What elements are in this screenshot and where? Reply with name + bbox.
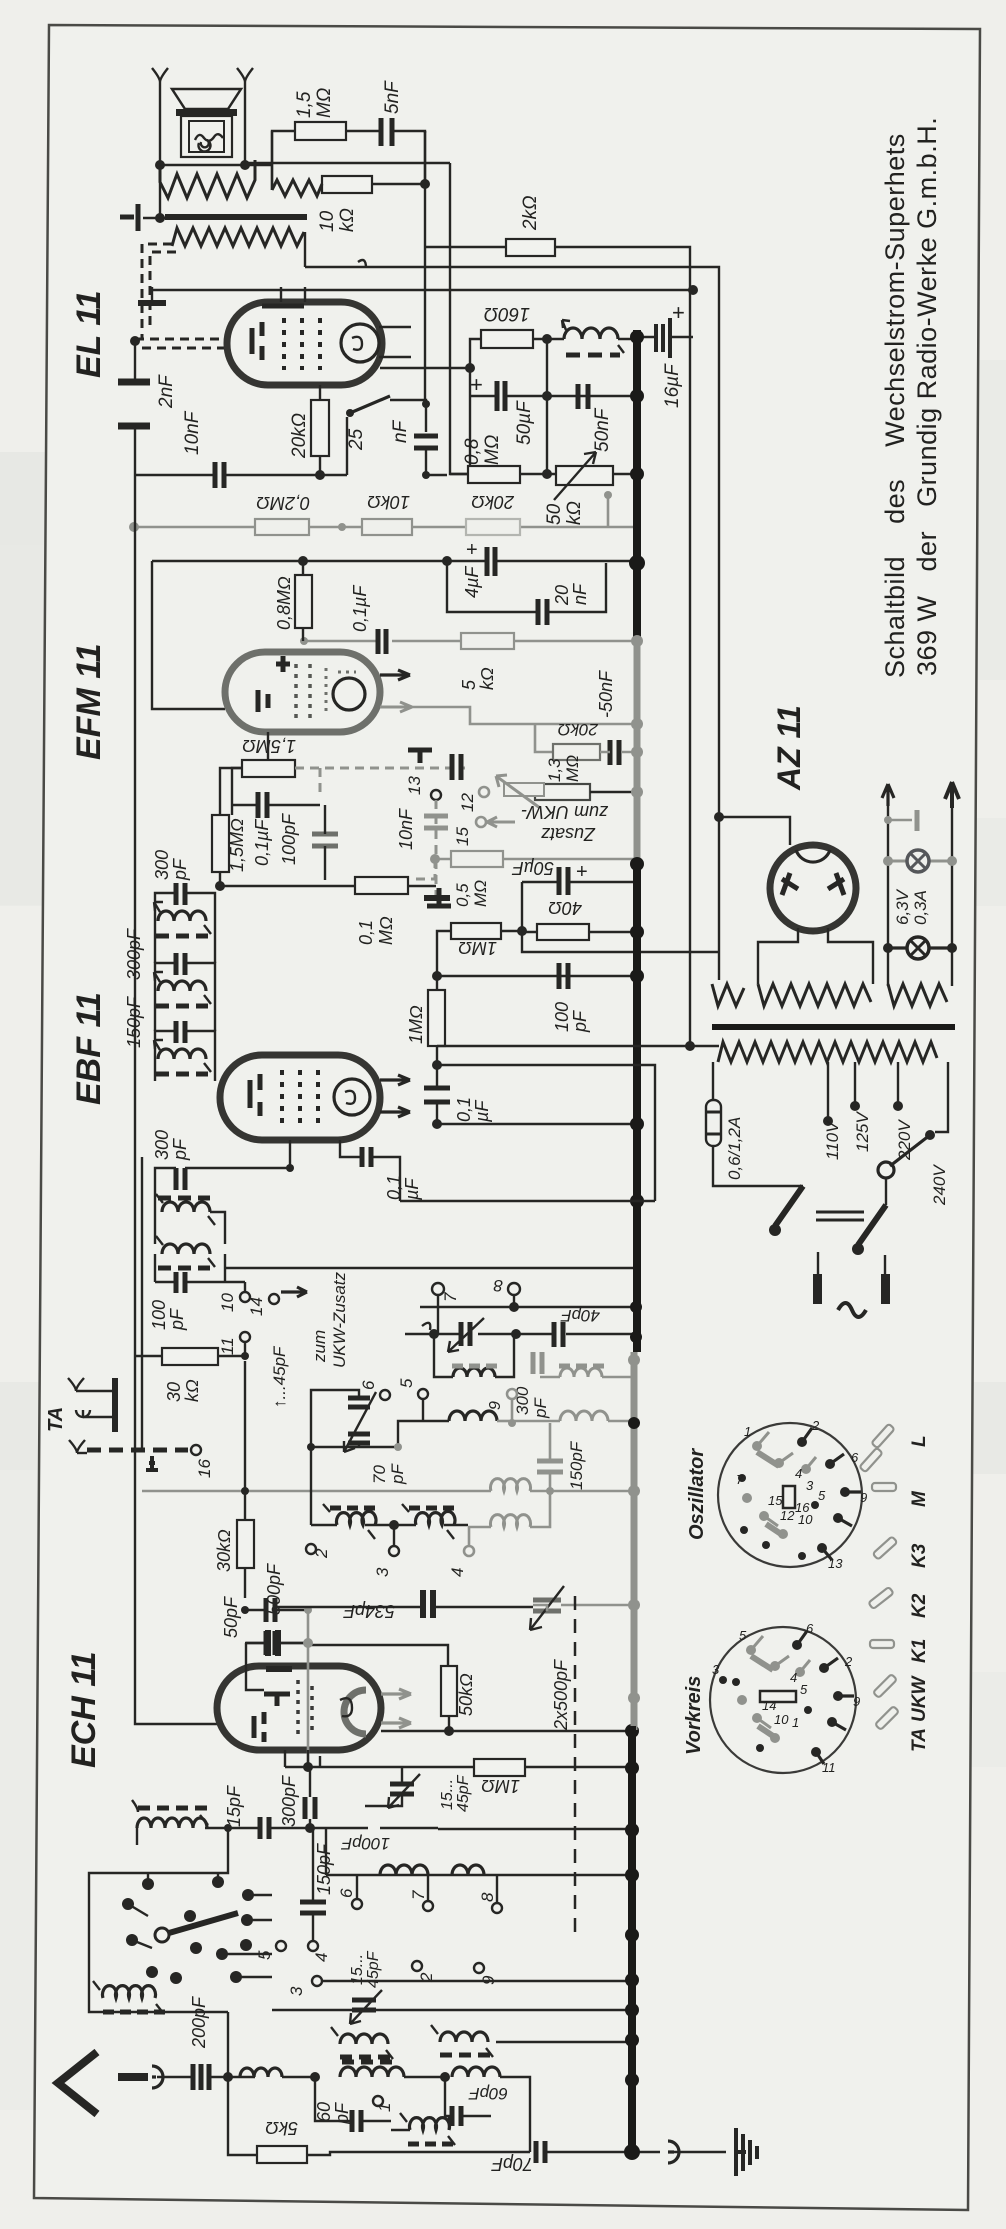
wire AZ11 anode feed [719, 817, 790, 845]
node grid junction y1065 [432, 1060, 442, 1070]
switch tone with cap [346, 409, 354, 417]
svg-text:4µF: 4µF [462, 566, 482, 598]
svg-text:+: + [470, 372, 483, 397]
arrow zum UKW-Zusatz [281, 1287, 307, 1297]
wafer contact bar K1 [870, 1640, 894, 1648]
node 0,8M top-left [465, 363, 475, 373]
svg-text:5kΩ: 5kΩ [265, 2118, 298, 2138]
wire cathode return rail y=475 [135, 474, 320, 476]
svg-text:25: 25 [346, 428, 367, 451]
L1 leads [434, 1334, 514, 1377]
node y1334 mid [511, 1329, 521, 1339]
wire 10k zigzag left lead [271, 131, 273, 190]
capacitor C 200pF plates [193, 2064, 209, 2090]
inductor osc padder L17 [340, 2034, 388, 2044]
svg-text:12: 12 [780, 1508, 795, 1523]
svg-text:AZ 11: AZ 11 [771, 705, 807, 791]
svg-text:6: 6 [851, 1450, 859, 1465]
wire 1,3M left gray [512, 791, 535, 794]
wire pin8 stem [513, 1295, 515, 1307]
socket extra levers gray [757, 1452, 784, 1536]
node 30k right [241, 1352, 249, 1360]
wafer contact bar M [872, 1483, 896, 1491]
pin 7 [432, 1283, 444, 1295]
svg-text:1MΩ: 1MΩ [481, 1776, 520, 1796]
capacitor C 100pF gray plates [312, 834, 338, 846]
capacitor C 300pF IF2 plates [176, 953, 185, 975]
pin 8 [508, 1283, 520, 1295]
wire rail to 4uF [426, 474, 447, 476]
node junction at 690,1046 [685, 1041, 695, 1051]
svg-text:TA: TA [45, 1407, 67, 1432]
resistor feedback zigzag [272, 180, 322, 196]
wire IF2 loop [155, 963, 215, 991]
svg-text:40Ω: 40Ω [548, 898, 582, 918]
resistor R 20kOhm cathode (vertical) [311, 400, 329, 456]
svg-text:10: 10 [317, 210, 338, 232]
svg-text:150pF: 150pF [124, 996, 144, 1048]
capacitor C 60pF-2 plates [452, 2106, 461, 2126]
wire heater rail right [951, 800, 953, 986]
L12 core dashes [342, 2060, 392, 2065]
tube AZ11 diode plate left [782, 873, 798, 895]
wire hum row y=976 [437, 975, 637, 977]
node EL11 grid junction [130, 336, 140, 346]
svg-text:MΩ: MΩ [471, 880, 490, 907]
svg-text:2x500pF: 2x500pF [551, 1659, 571, 1731]
tube EBF11 cathode bars [250, 1074, 260, 1116]
socket pins black group [740, 1437, 850, 1560]
label AC tilde [838, 1303, 866, 1317]
wire bus bottom to ground [632, 2151, 660, 2153]
capacitor C 300pF osc plates [305, 1797, 315, 1819]
capacitor C 0,1uF plates [424, 1088, 450, 1102]
node cathode rail junction [315, 470, 325, 480]
svg-text:369 W der Grundig Radio-We: 369 W der Grundig Radio-Werke G.m.b.H. [912, 117, 942, 676]
loudspeaker cone [172, 89, 241, 109]
svg-text:5: 5 [800, 1682, 808, 1697]
wire tube to 1,5M [232, 732, 268, 815]
pin 9 gray [507, 1389, 517, 1399]
capacitor C 16uF electrolytic [656, 318, 670, 358]
svg-text:20kΩ: 20kΩ [471, 492, 515, 512]
resistor R 5kOhm (gray) [461, 633, 514, 649]
tube EL11 grid dashes [284, 318, 320, 370]
IF1 core dashes [156, 934, 208, 939]
tube EFM11 anode arrow lower gray [380, 702, 412, 712]
switch lever [350, 396, 390, 413]
node trimmer bottom left [307, 1443, 315, 1451]
wire 1,3M right to bus [590, 791, 637, 793]
wire L14 right [500, 2077, 530, 2152]
svg-text:100pF: 100pF [340, 1834, 390, 1853]
capacitor C 10nF plates [215, 462, 224, 488]
IF3 tuning arrow [154, 1040, 211, 1072]
capacitor C 300pF IF4 plates [176, 1168, 185, 1190]
switch mains DPDT pole left [775, 1186, 803, 1226]
arrow heater rail right dark [945, 782, 959, 808]
svg-text:0,6/1,2A: 0,6/1,2A [725, 1117, 744, 1180]
node mid junction 547,396 [542, 391, 552, 401]
wire antenna coil row y1828 [205, 1828, 632, 1829]
resistor R 1,5MOhm vertical [212, 815, 229, 872]
wire 16uF to right column [670, 336, 693, 338]
svg-text:nF: nF [570, 583, 590, 605]
wire trimmer left drop [310, 1447, 312, 1525]
Vorkreis pins gray [737, 1645, 805, 1743]
tube EBF11 heater curl [345, 1091, 355, 1104]
svg-text:1MΩ: 1MΩ [458, 938, 497, 958]
pot arrow [554, 452, 596, 500]
pin 8 osc [492, 1903, 502, 1913]
inductor osc L12 [340, 2067, 404, 2077]
wire AZ11 filament legs [758, 928, 873, 984]
svg-text:4: 4 [795, 1466, 802, 1481]
IF4 tuning arrow [156, 1194, 215, 1225]
svg-text:16: 16 [195, 1459, 214, 1478]
svg-text:kΩ: kΩ [182, 1379, 202, 1402]
svg-text:1MΩ: 1MΩ [406, 1005, 426, 1044]
trimmer gray potentiometer [504, 783, 544, 796]
node 50pF left [241, 1606, 249, 1614]
resistor R 10kOhm [322, 176, 372, 193]
tube ECH11 top bar [266, 1666, 292, 1672]
wire L3 to gray node [497, 1420, 512, 1423]
wire 70pF to bus [545, 2151, 632, 2153]
node lamp row1 right [947, 856, 957, 866]
svg-text:L: L [909, 1435, 930, 1447]
svg-text:zum UKW-: zum UKW- [521, 802, 609, 822]
wire L9 left drop [136, 1828, 138, 1845]
node band row [389, 1520, 399, 1530]
svg-text:300: 300 [152, 850, 172, 880]
wire gray demod row y=724 [412, 707, 637, 724]
resistor R 0,8MOhm (vertical) [295, 575, 312, 628]
output transformer primary zigzag [172, 228, 304, 246]
svg-text:11: 11 [822, 1760, 836, 1775]
node 30k top on gray row [241, 1487, 249, 1495]
antenna lead bar [118, 2073, 148, 2081]
capacitor C 10nF series plates [452, 754, 461, 780]
resistor R 30kOhm [162, 1348, 218, 1365]
svg-text:300pF: 300pF [124, 928, 144, 980]
resistor R 2kOhm [506, 239, 555, 256]
node gray 0,8M bottom [300, 637, 308, 645]
wire gray screen rail y=641 [304, 640, 637, 643]
wafer contact bar K2 [868, 1587, 893, 1609]
L18 core dashes [440, 2053, 490, 2058]
L9 hook terminal [132, 1800, 208, 1825]
svg-text:K3: K3 [909, 1543, 930, 1568]
tube EBF11 envelope [220, 1055, 380, 1140]
wire pin7 stem [437, 1295, 439, 1334]
svg-text:7: 7 [441, 1292, 460, 1302]
svg-text:0,8: 0,8 [462, 438, 483, 465]
wire 160 right lead [533, 338, 564, 340]
wire 1,5M vert leads [220, 768, 242, 886]
svg-text:9: 9 [853, 1694, 860, 1709]
svg-text:3: 3 [373, 1567, 392, 1577]
tap 125V [854, 1062, 856, 1102]
node lamp row2 left [883, 943, 893, 953]
wire cathode stub [319, 385, 321, 475]
wire 150pF stem gray [549, 1423, 552, 1491]
speaker terminal hook left [152, 68, 168, 82]
choke core dashes [566, 353, 620, 358]
svg-text:12: 12 [458, 793, 477, 812]
wire 30k leads [135, 1355, 245, 1357]
node x437 y976 [432, 971, 442, 981]
wire feedback box left [152, 561, 225, 709]
wire IF3 loop [155, 1031, 215, 1059]
capacitor C nF plates [414, 436, 438, 448]
node 50k bottom [444, 1726, 454, 1736]
resistor R 5kOhm [257, 2146, 307, 2163]
wire vertical x=425 feedback column [424, 131, 426, 404]
svg-text:pF: pF [388, 1463, 407, 1485]
wire y1334 row [405, 1333, 637, 1335]
svg-text:300: 300 [152, 1130, 172, 1160]
node gray rail left [129, 522, 139, 532]
Vorkreis pin stubs gray [751, 1636, 810, 1728]
node speaker left junction [155, 160, 165, 170]
L1 core dashes gray [452, 1364, 497, 1369]
node lamp row1 left [883, 856, 893, 866]
svg-text:15: 15 [768, 1493, 783, 1508]
svg-text:EBF 11: EBF 11 [70, 992, 108, 1105]
svg-text:15...: 15... [439, 1779, 456, 1810]
svg-text:8: 8 [478, 1892, 497, 1902]
inductor osc L3 dark [449, 1411, 497, 1421]
resistor R 1MOhm osc [474, 1759, 525, 1776]
tap 220V [897, 1062, 899, 1102]
L13 T-mark [400, 2113, 455, 2145]
wire y1124 to bus [437, 1123, 637, 1125]
wire osc mixer row y1875 [326, 1874, 632, 1876]
ground cap terminal left of output transformer [120, 204, 138, 231]
wire IF1 to IF2 [155, 921, 215, 963]
loudspeaker magnet bar [176, 109, 237, 116]
svg-text:240V: 240V [930, 1164, 949, 1206]
capacitor ground plate [427, 888, 451, 906]
wire 160 left loop [470, 339, 481, 474]
wire pin13 dashed vertical [435, 800, 438, 900]
mains terminal left [817, 1252, 819, 1274]
capacitor plate ground EFM [424, 895, 450, 901]
svg-text:150pF: 150pF [567, 1440, 586, 1490]
tube AZ11 top notch [796, 850, 830, 862]
wire pin8 stem [496, 1875, 498, 1903]
capacitor C 100pF plates [559, 963, 568, 989]
wire dashed drop to cap [319, 768, 322, 792]
wire dashed screen feed corner [142, 244, 176, 338]
svg-text:5: 5 [739, 1628, 747, 1643]
mains terminal right [884, 1255, 886, 1274]
svg-text:MΩ: MΩ [376, 916, 396, 945]
svg-text:µF: µF [472, 1100, 492, 1123]
svg-text:150pF: 150pF [314, 1843, 334, 1895]
inductor smoothing choke [564, 328, 618, 339]
L9 core dashes [138, 1806, 207, 1811]
svg-text:1,5MΩ: 1,5MΩ [227, 818, 247, 872]
svg-text:70: 70 [370, 1465, 389, 1484]
svg-text:2: 2 [312, 1548, 331, 1559]
svg-text:45pF: 45pF [455, 1774, 472, 1812]
svg-text:MΩ: MΩ [314, 88, 335, 118]
wafer contact bar L2 [859, 1448, 882, 1473]
wire lamp row 2 [888, 946, 952, 949]
pin 14 [269, 1294, 279, 1304]
L13 core dashes [408, 2142, 453, 2147]
svg-text:7: 7 [736, 1472, 744, 1487]
wire band row [311, 1524, 468, 1526]
tube EFM11 grid dashes [296, 664, 310, 720]
wire pot wiper gray drop [607, 495, 610, 527]
svg-text:M: M [909, 1490, 930, 1507]
svg-text:1,5: 1,5 [294, 91, 315, 118]
wire choke to bus [618, 338, 637, 340]
inductor ant L11 [240, 2068, 282, 2077]
coil band L8 gray [491, 1515, 531, 1527]
wire L4 leads gray [512, 1420, 634, 1423]
svg-text:2nF: 2nF [156, 374, 177, 409]
wire rail continues to switch branch [320, 474, 347, 476]
capacitor C 300pF IF1 plates [176, 883, 185, 905]
wire vertical x=450 down to 0,8M [450, 163, 468, 474]
svg-text:nF: nF [390, 419, 411, 443]
svg-text:20: 20 [552, 585, 572, 606]
wire osc coil row y=1421 [423, 1420, 449, 1422]
switch wires fan [128, 1873, 272, 1977]
wire EL11 screen stub [280, 287, 282, 302]
svg-text:10: 10 [774, 1712, 789, 1727]
svg-text:50nF: 50nF [592, 407, 613, 452]
wire 50uF row y=396 [470, 395, 633, 397]
svg-text:ECH 11: ECH 11 [65, 1651, 103, 1768]
resistor R 0,5MOhm gray [451, 851, 503, 867]
node junction 715,817 [714, 812, 724, 822]
svg-text:EFM 11: EFM 11 [70, 643, 108, 760]
svg-text:+: + [672, 300, 685, 325]
tube ECH11 arrow lower gray [381, 1718, 411, 1728]
socket key slot [783, 1486, 795, 1508]
wire mid vertical x=547 [546, 339, 548, 474]
wire 240V lead [935, 1062, 948, 1132]
node tube bottom [286, 1164, 294, 1172]
wire IF5 sides [155, 1254, 225, 1282]
wire row A to 534pF [275, 1606, 533, 1608]
wire horizontal y=1201 to bus [400, 1200, 655, 1202]
winding HV left stub zigzag [712, 984, 744, 1006]
wire junction up to switch [227, 2012, 229, 2077]
inductor switch coil L10 [102, 1986, 155, 1998]
wire speaker bottom link [160, 164, 245, 166]
svg-text:Zusatz: Zusatz [541, 824, 596, 844]
capacitor C 20nF plates [538, 599, 547, 625]
wire dashed grid line into tube [135, 339, 227, 348]
lamp dial 1 [907, 850, 929, 872]
coil row gray: UKW coil L2 [560, 1368, 602, 1377]
svg-text:100: 100 [552, 1002, 572, 1032]
wire pin7 stem [427, 1875, 429, 1901]
svg-text:UKW: UKW [909, 1675, 930, 1722]
resistor R 10kOhm AVC (gray) [362, 519, 412, 535]
node 0,8M right junction [542, 469, 552, 479]
capacitor C 500pF plates [266, 1631, 275, 1655]
wire 50k bottom [448, 1716, 450, 1731]
tube EL11 heater curl [352, 337, 362, 350]
node y1334 left [429, 1329, 439, 1339]
gray arrow to pin15 [487, 817, 515, 827]
wire long left rail x=132 [135, 470, 220, 1724]
node 40ohm junction [517, 926, 527, 936]
TA terminal bar [112, 1378, 118, 1432]
svg-text:10nF: 10nF [396, 808, 416, 850]
svg-text:50kΩ: 50kΩ [456, 1673, 476, 1716]
svg-text:16µF: 16µF [662, 363, 683, 408]
wire speaker right lead [244, 82, 246, 165]
wire IF2 to IF3 [155, 991, 215, 1031]
svg-text:6: 6 [337, 1888, 356, 1898]
node heater gray left [884, 816, 892, 824]
loudspeaker voice coil [189, 121, 224, 152]
IF1 tuning arrow [154, 902, 211, 934]
svg-text:3: 3 [287, 1986, 306, 1996]
inductor osc L15 [380, 1865, 428, 1875]
inductor IF3 coil [158, 1049, 206, 1059]
svg-text:3: 3 [806, 1478, 814, 1493]
coil band L7 dark with core [416, 1511, 456, 1525]
wire fuse leads [713, 1062, 803, 1186]
svg-text:5nF: 5nF [382, 80, 403, 114]
svg-text:0,1µF: 0,1µF [252, 819, 272, 866]
wire 1,5M/5nF loop [272, 131, 425, 190]
svg-text:1: 1 [375, 2103, 394, 2112]
L17 T-mark [331, 2027, 393, 2059]
svg-text:kΩ: kΩ [477, 667, 497, 690]
svg-text:13: 13 [405, 776, 424, 795]
wire 50uF row [522, 881, 633, 883]
wire cap to junction [209, 2076, 255, 2078]
capacitor C 150pF IF3 plates [176, 1021, 185, 1043]
Vorkreis pin stubs black [797, 1631, 854, 1764]
wire gray 20k loop [535, 724, 553, 752]
tube ECH11 cathode bars [254, 1712, 264, 1742]
wire 30k top from pin16 row [244, 1361, 246, 1491]
wire to hum coil loop [245, 164, 272, 166]
wire bar lead [143, 217, 170, 219]
ground symbol small [146, 1456, 158, 1470]
tube EL11 heater circle [341, 324, 379, 362]
capacitor C 40pF plates [554, 1322, 563, 1347]
svg-text:EL 11: EL 11 [70, 290, 108, 378]
node gray y1491 [546, 1487, 554, 1495]
tube EBF11 heater circle [334, 1079, 370, 1115]
loudspeaker frame [181, 116, 232, 157]
wire 1M vertical top lead [436, 976, 438, 1065]
capacitor C 100pF IF plates [176, 1272, 185, 1293]
svg-text:K2: K2 [909, 1593, 930, 1618]
node gray rail mid [338, 523, 346, 531]
svg-text:6: 6 [806, 1621, 814, 1636]
capacitor C 4uF electrolytic [487, 547, 495, 576]
node trimmer bottom right [394, 1443, 402, 1451]
capacitor C 5nF plates [381, 118, 392, 146]
svg-text:100: 100 [149, 1300, 169, 1330]
capacitor C 534pF plates [423, 1590, 433, 1618]
trimmer2 loop [365, 1767, 402, 1806]
IF2 core dashes [156, 1004, 208, 1009]
